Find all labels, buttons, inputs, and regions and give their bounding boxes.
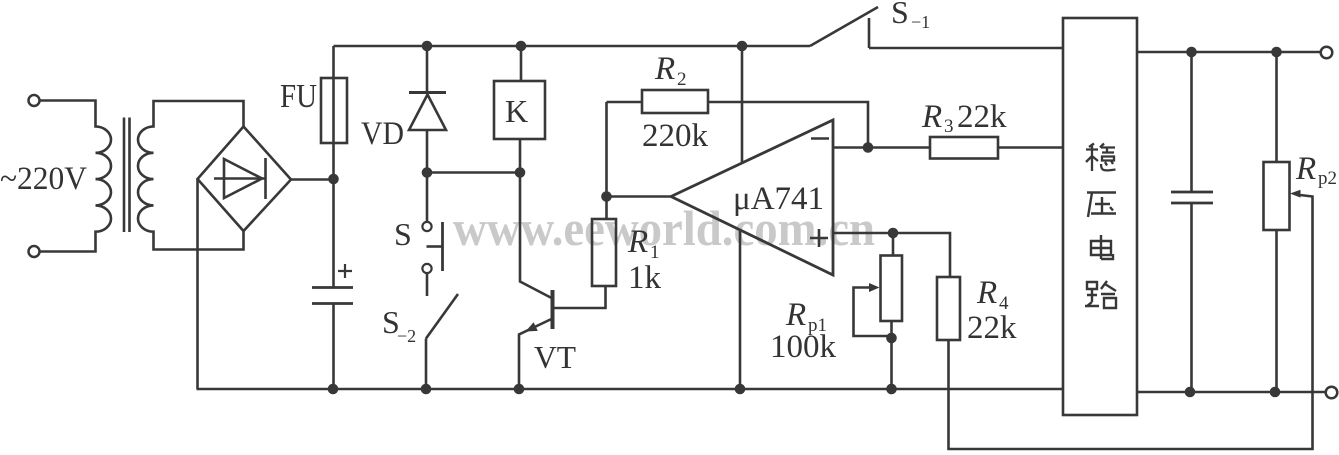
potentiometer Rp2 top wire [1275,52,1278,162]
bridge rectifier diamond [198,127,292,232]
wire S-1 to regulator [869,47,1063,50]
potentiometer Rp1 top wire [892,233,895,256]
capacitor C1 plus sign [338,264,352,278]
svg-text:22k: 22k [957,99,1007,135]
switch S upper contact [422,222,431,231]
wire bridge positive output [291,178,334,181]
terminal output top [1321,47,1333,59]
op-amp U1 triangle [671,120,833,275]
wire bottom rail left [197,388,1064,391]
svg-text:R: R [785,297,806,333]
potentiometer Rp1 wiper [854,288,892,337]
node VD bottom [422,167,433,178]
svg-text:220k: 220k [642,118,709,154]
svg-text:−2: −2 [397,326,416,346]
glyph lu 路 [1085,281,1116,308]
resistor R4 body [937,277,960,340]
potentiometer Rp2 wiper arrow [1290,190,1301,198]
switch S-1 blade [810,7,878,46]
diode VD triangle [409,95,446,131]
potentiometer Rp2 bottom wire [1275,230,1278,392]
relay K box [494,81,545,139]
glyph ya 压 [1087,193,1116,218]
transformer core [124,118,130,233]
bridge diode cathode bar [264,158,267,199]
resistor R2 body [642,90,708,113]
capacitor C1 wire lower [332,304,335,390]
node noninverting input [888,228,899,239]
svg-text:μA741: μA741 [733,181,824,217]
svg-text:VT: VT [534,339,576,375]
switch S actuator bar [441,222,444,271]
transistor VT collector wire [520,173,553,299]
svg-text:100k: 100k [770,329,837,365]
svg-text:VD: VD [361,116,404,152]
terminal AC bottom [29,246,40,257]
transformer T primary winding [40,101,112,252]
switch S-2 lower wire [425,339,428,390]
terminal AC top [29,95,40,106]
capacitor C2 plates [1171,192,1213,203]
wire VD to K link [427,171,520,174]
node Rp2 top [1271,47,1282,58]
node Rp1 wiper join [886,333,897,344]
switch S actuator stem [427,245,442,248]
transistor VT base bar [551,290,555,329]
svg-text:~220V: ~220V [0,161,87,197]
potentiometer Rp2 body [1264,162,1290,230]
diode VD cathode bar [409,91,446,94]
wire output to op-amp apex [607,195,672,198]
node capacitor bottom [328,384,339,395]
resistor R1 body [592,219,616,286]
potentiometer Rp1 bottom wire [890,321,893,389]
node C2 bottom [1185,387,1196,398]
wire top rail [334,45,811,48]
transistor VT emitter arrow [526,322,538,331]
capacitor C2 upper wire [1190,52,1193,192]
svg-text:R: R [654,51,675,87]
svg-text:2: 2 [677,69,687,90]
switch S-1 contact tick [868,18,871,48]
svg-text:1k: 1k [628,260,662,296]
node K top rail [516,41,527,52]
op-amp plus sign [810,229,828,247]
potentiometer Rp1 body [881,256,903,322]
node VD top [422,41,433,52]
terminal output bottom [1326,387,1338,399]
switch S lower contact [422,264,431,273]
glyph wen 稳 [1086,144,1116,172]
svg-text:FU: FU [280,78,317,115]
switch S upper wire [426,178,429,222]
regulator box 稳压电路 [1063,18,1137,415]
wire inverting input [833,146,930,149]
svg-text:3: 3 [944,116,954,137]
svg-text:R: R [921,99,942,135]
svg-text:S: S [891,0,909,30]
transistor VT emitter [519,319,553,390]
svg-text:R: R [627,224,648,260]
wire top rail right [1137,51,1321,54]
wire noninverting input [833,233,950,277]
svg-text:K: K [505,93,528,129]
transistor VT base wire to R1 [553,286,606,308]
node DC positive [328,174,339,185]
node inverting input [863,142,874,153]
diode VD anode wire [426,46,429,92]
svg-text:R: R [976,275,997,311]
bridge diode axis [214,177,265,180]
svg-text:S: S [394,216,412,252]
op-amp minus sign [811,137,829,140]
svg-text:22k: 22k [967,310,1017,346]
node Rp2 bottom [1270,387,1281,398]
diode VD lower wire [426,130,429,173]
transformer T secondary winding [138,101,244,250]
node K bottom [515,167,526,178]
potentiometer Rp1 wiper arrow [869,283,880,292]
capacitor C1 wire upper [332,179,335,288]
wire bottom rail right [1137,391,1326,394]
node C2 top [1186,47,1197,58]
resistor R1 top wire [605,102,608,219]
node V- bottom rail [735,384,746,395]
switch S-2 blade [426,294,458,339]
resistor R4 bottom feedback wire [949,195,1313,449]
node V+ top rail [737,41,748,52]
op-amp V+ supply wire [741,46,744,164]
svg-text:R: R [1295,151,1316,187]
bridge diode triangle [224,159,262,198]
resistor R2 left wire [607,101,643,104]
capacitor C2 lower wire [1190,203,1193,392]
switch S lower wire [426,274,429,297]
node S-2 bottom rail [421,384,432,395]
op-amp V- supply wire [739,230,742,389]
glyph dian 电 [1091,235,1113,259]
resistor R3 body [930,137,998,159]
svg-text:p2: p2 [1318,168,1337,189]
relay K wire upper [520,46,523,81]
wire bridge negative to bottom rail [196,180,199,390]
node VT emitter bottom rail [514,384,525,395]
node op-amp output [601,191,612,202]
svg-text:−1: −1 [911,12,930,32]
capacitor C1 plates [312,288,353,304]
relay K wire lower [519,139,522,173]
resistor R2 right wire [708,102,868,148]
node Rp1 bottom rail [886,384,897,395]
wire fuse column [332,46,335,179]
fuse FU body [321,78,347,143]
resistor R3 right wire [998,146,1063,149]
